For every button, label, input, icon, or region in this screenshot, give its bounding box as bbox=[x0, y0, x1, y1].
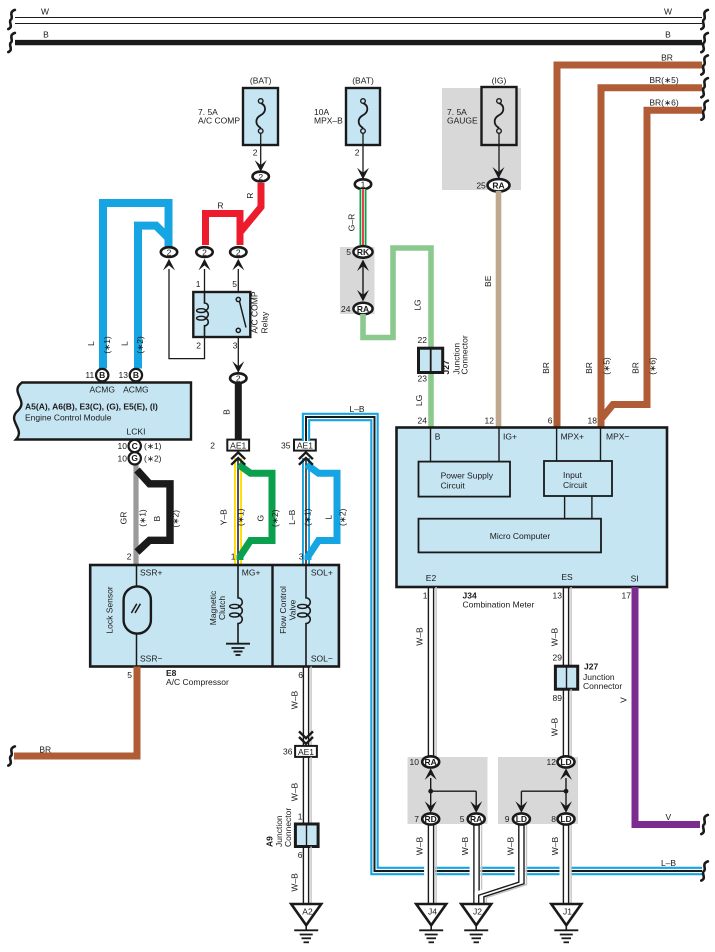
wire R red from F1 bbox=[240, 183, 261, 245]
svg-text:Connector: Connector bbox=[460, 335, 470, 374]
svg-text:ACMG: ACMG bbox=[123, 385, 149, 395]
svg-text:1: 1 bbox=[196, 279, 201, 289]
svg-text:Relay: Relay bbox=[260, 311, 270, 333]
svg-text:5: 5 bbox=[346, 247, 351, 257]
svg-text:(∗1): (∗1) bbox=[102, 336, 112, 354]
svg-text:5: 5 bbox=[127, 670, 132, 680]
svg-text:10: 10 bbox=[118, 453, 128, 463]
svg-text:B: B bbox=[43, 30, 49, 40]
svg-text:(BAT): (BAT) bbox=[352, 76, 374, 86]
svg-text:(∗2): (∗2) bbox=[338, 508, 348, 526]
svg-text:6: 6 bbox=[298, 850, 303, 860]
svg-text:29: 29 bbox=[553, 653, 563, 663]
svg-text:35: 35 bbox=[281, 440, 291, 450]
svg-text:MPX+: MPX+ bbox=[561, 432, 584, 442]
wire BR brown top bbox=[557, 65, 702, 428]
arrow up into oval relay pin5 bbox=[232, 259, 244, 271]
svg-text:10: 10 bbox=[118, 441, 128, 451]
wire BE beige bbox=[496, 191, 502, 428]
svg-text:22: 22 bbox=[418, 335, 428, 345]
connector oval 2 below relay bbox=[230, 373, 246, 383]
fuse F2 10A MPX-B bbox=[346, 88, 380, 145]
svg-text:Combination Meter: Combination Meter bbox=[463, 600, 535, 610]
meter internal tick MPX- bbox=[600, 428, 602, 462]
svg-text:W–B: W–B bbox=[506, 836, 516, 855]
gray background box RA/RD ground circuit bbox=[408, 757, 488, 824]
svg-text:2: 2 bbox=[167, 247, 172, 257]
wire W-B 9 LD to J2 ground diagonal bbox=[479, 825, 527, 904]
svg-text:23: 23 bbox=[418, 374, 428, 384]
double chevron up below 35 AE1 bbox=[299, 452, 313, 464]
wire BR brown bottom left bbox=[14, 667, 137, 757]
gray background box LD ground circuit bbox=[498, 757, 578, 824]
svg-text:C: C bbox=[132, 441, 138, 451]
micro computer box bbox=[419, 519, 602, 553]
svg-text:Power Supply: Power Supply bbox=[441, 471, 494, 481]
svg-text:11: 11 bbox=[85, 370, 94, 380]
svg-text:2: 2 bbox=[127, 552, 132, 562]
svg-text:(∗5): (∗5) bbox=[602, 357, 612, 375]
svg-text:(∗1): (∗1) bbox=[137, 509, 147, 527]
wire BR(*5) brown bbox=[601, 88, 702, 428]
svg-text:W: W bbox=[41, 7, 49, 17]
svg-text:J27: J27 bbox=[441, 360, 451, 374]
break squiggle B right bbox=[701, 33, 708, 52]
wire W-B 7 RD to J4 ground bbox=[428, 825, 436, 904]
svg-text:(BAT): (BAT) bbox=[250, 76, 272, 86]
svg-text:LG: LG bbox=[413, 299, 423, 310]
svg-text:10: 10 bbox=[410, 757, 420, 767]
svg-text:SI: SI bbox=[631, 574, 639, 584]
svg-text:Connector: Connector bbox=[583, 681, 622, 691]
arrow down into 7 RD bbox=[425, 801, 437, 813]
svg-text:Micro Computer: Micro Computer bbox=[490, 531, 551, 541]
arrow down into oval below relay bbox=[232, 361, 244, 373]
double chevron down above 36 AE1 bbox=[299, 731, 313, 743]
svg-text:AE1: AE1 bbox=[298, 747, 314, 757]
wire W-B meter E2 down bbox=[428, 587, 436, 756]
svg-text:A/C COMP: A/C COMP bbox=[250, 291, 260, 333]
svg-text:B: B bbox=[99, 370, 105, 380]
relay coil bbox=[205, 292, 209, 337]
svg-text:9: 9 bbox=[505, 814, 510, 824]
svg-text:GR: GR bbox=[119, 512, 129, 525]
svg-text:Circuit: Circuit bbox=[441, 481, 466, 491]
svg-text:2: 2 bbox=[210, 440, 215, 450]
svg-text:R: R bbox=[245, 193, 255, 199]
svg-text:E2: E2 bbox=[426, 573, 437, 583]
fuse F1 7.5A A/C COMP bbox=[243, 88, 278, 145]
svg-text:W–B: W–B bbox=[460, 836, 470, 855]
junction connector J27 left box bbox=[419, 348, 443, 372]
svg-text:(∗1): (∗1) bbox=[235, 508, 245, 526]
svg-text:Input: Input bbox=[563, 470, 583, 480]
relay A/C COMP box bbox=[193, 292, 250, 337]
connector oval RA below F3 bbox=[488, 179, 510, 191]
connector oval 2 relay pin5 bbox=[230, 247, 246, 257]
meter internal tick IG+ bbox=[498, 428, 500, 462]
svg-text:12: 12 bbox=[485, 416, 495, 426]
svg-text:89: 89 bbox=[553, 693, 563, 703]
junction connector J27 right box bbox=[555, 666, 577, 689]
arrow down into oval 2 bbox=[255, 160, 267, 172]
svg-text:BR(∗5): BR(∗5) bbox=[649, 75, 678, 85]
svg-text:LCKI: LCKI bbox=[127, 427, 146, 437]
svg-text:A/C Compressor: A/C Compressor bbox=[166, 677, 229, 687]
svg-text:2: 2 bbox=[236, 247, 241, 257]
svg-text:L–B: L–B bbox=[661, 858, 676, 868]
svg-text:BR: BR bbox=[631, 362, 641, 374]
arrow down into oval 1 bbox=[357, 168, 369, 180]
svg-text:24: 24 bbox=[418, 416, 428, 426]
svg-text:LD: LD bbox=[560, 814, 571, 824]
svg-text:18: 18 bbox=[588, 416, 598, 426]
relay switch bbox=[236, 297, 246, 332]
circuit lines gray box 1 bbox=[431, 778, 477, 807]
wire B black loop (*2) bbox=[137, 470, 170, 552]
wire G green loop (*2) bbox=[239, 465, 273, 561]
svg-text:A9: A9 bbox=[265, 836, 275, 847]
power supply circuit box bbox=[419, 462, 511, 497]
svg-text:A/C COMP: A/C COMP bbox=[198, 116, 240, 126]
svg-text:2: 2 bbox=[236, 374, 241, 384]
wire W-B compressor pin6 upper bbox=[303, 667, 311, 746]
compressor divider bbox=[271, 565, 273, 667]
connector oval 1 below F2 bbox=[355, 179, 371, 189]
break squiggle BR(*6) right bbox=[701, 101, 708, 120]
lock sensor slashes bbox=[131, 604, 136, 613]
svg-text:G: G bbox=[256, 515, 266, 522]
wire relay pin3 down bbox=[237, 337, 239, 373]
break squiggle BR(*5) right bbox=[701, 78, 708, 97]
svg-text:6: 6 bbox=[298, 670, 303, 680]
svg-text:1: 1 bbox=[231, 552, 236, 562]
svg-text:RA: RA bbox=[492, 181, 504, 191]
svg-text:24: 24 bbox=[341, 304, 351, 314]
connector oval 2 cyan bbox=[161, 247, 177, 257]
junction dot bbox=[564, 789, 569, 794]
svg-text:1: 1 bbox=[361, 180, 366, 190]
wire L-B long run bbox=[306, 417, 702, 871]
svg-text:L: L bbox=[119, 341, 129, 346]
wire W-B meter ES down bbox=[563, 587, 571, 666]
wires input circuit to micro computer bbox=[564, 496, 566, 519]
svg-text:J1: J1 bbox=[563, 907, 572, 917]
svg-text:5: 5 bbox=[460, 814, 465, 824]
svg-text:Lock Sensor: Lock Sensor bbox=[105, 586, 115, 633]
wire R red branch to relay pin1 bbox=[206, 214, 241, 246]
arrow down into 8 LD bbox=[560, 801, 572, 813]
svg-text:(∗6): (∗6) bbox=[648, 357, 658, 375]
compressor E8 box bbox=[90, 565, 339, 667]
svg-text:Valve: Valve bbox=[288, 599, 298, 620]
svg-text:(∗1): (∗1) bbox=[303, 508, 313, 526]
junction dot bbox=[428, 789, 433, 794]
svg-text:BE: BE bbox=[483, 275, 493, 287]
svg-text:5: 5 bbox=[232, 279, 237, 289]
svg-text:V: V bbox=[665, 812, 671, 822]
svg-text:(IG): (IG) bbox=[492, 76, 507, 86]
svg-text:BR: BR bbox=[39, 745, 51, 755]
break squiggle V right bbox=[701, 815, 708, 834]
svg-text:B: B bbox=[152, 516, 162, 522]
svg-text:B: B bbox=[665, 30, 671, 40]
svg-text:1: 1 bbox=[298, 812, 303, 822]
svg-text:W–B: W–B bbox=[415, 627, 425, 646]
fuse F3 7.5A GAUGE bbox=[482, 87, 517, 145]
svg-text:B: B bbox=[133, 370, 139, 380]
arrow down into 9 LD bbox=[515, 801, 527, 813]
svg-text:2: 2 bbox=[202, 247, 207, 257]
svg-text:SSR+: SSR+ bbox=[140, 568, 162, 578]
meter internal tick B bbox=[430, 428, 432, 462]
arrow up into cyan oval bbox=[163, 259, 175, 271]
wire BR(*6) brown bbox=[602, 110, 703, 418]
svg-text:B: B bbox=[435, 432, 441, 442]
svg-text:ES: ES bbox=[561, 572, 573, 582]
svg-text:B: B bbox=[221, 409, 231, 415]
svg-text:W–B: W–B bbox=[550, 717, 560, 736]
svg-text:LD: LD bbox=[516, 814, 527, 824]
svg-text:G: G bbox=[131, 453, 138, 463]
svg-text:AE1: AE1 bbox=[230, 441, 246, 451]
svg-text:3: 3 bbox=[299, 552, 304, 562]
svg-text:(∗2): (∗2) bbox=[144, 453, 162, 463]
svg-text:L: L bbox=[324, 515, 334, 520]
flow control valve coil bbox=[306, 565, 310, 667]
break squiggle BR left bbox=[8, 746, 15, 765]
svg-text:8: 8 bbox=[551, 814, 556, 824]
wire fuse F2 to connector bbox=[362, 133, 364, 179]
junction connector A9 box bbox=[295, 824, 318, 847]
wire W-B J27 to 12 LD bbox=[563, 689, 571, 756]
svg-text:MPX−: MPX− bbox=[606, 432, 629, 442]
svg-text:(∗2): (∗2) bbox=[270, 509, 280, 527]
svg-text:L–B: L–B bbox=[287, 509, 297, 524]
break squiggle L-B right bbox=[701, 861, 708, 880]
lock sensor capsule bbox=[124, 586, 151, 633]
svg-text:BR: BR bbox=[661, 53, 673, 63]
arrow up into oval relay pin1 bbox=[199, 259, 211, 271]
svg-text:Connector: Connector bbox=[283, 808, 293, 847]
arrow down into 5 RA bbox=[470, 801, 482, 813]
svg-text:36: 36 bbox=[283, 747, 293, 757]
wire B black to AE1 bbox=[235, 383, 242, 440]
svg-text:(∗2): (∗2) bbox=[135, 336, 145, 354]
wire W bus top bbox=[15, 18, 702, 24]
svg-text:J2: J2 bbox=[473, 907, 482, 917]
svg-text:LD: LD bbox=[560, 757, 571, 767]
svg-text:W–B: W–B bbox=[550, 627, 560, 646]
wire W-B AE1 to A9 bbox=[303, 757, 311, 824]
svg-text:RA: RA bbox=[425, 757, 437, 767]
ground J2 bbox=[461, 904, 491, 942]
svg-text:Circuit: Circuit bbox=[563, 480, 588, 490]
wire L cyan (*1) from bus bbox=[103, 203, 169, 369]
gray background box fuse GAUGE bbox=[442, 88, 521, 190]
svg-text:AE1: AE1 bbox=[297, 441, 313, 451]
svg-text:25: 25 bbox=[476, 180, 486, 190]
svg-text:1: 1 bbox=[423, 591, 428, 601]
arrow down into oval RA bbox=[493, 167, 505, 179]
gray background box RK/RA connector bbox=[340, 247, 375, 314]
svg-text:W–B: W–B bbox=[290, 690, 300, 709]
svg-text:W–B: W–B bbox=[290, 873, 300, 892]
svg-text:12: 12 bbox=[547, 757, 557, 767]
wire L cyan (*2) from bus bbox=[138, 226, 169, 369]
svg-text:MPX–B: MPX–B bbox=[314, 116, 343, 126]
wire Y-B yellow-black (*1) bbox=[234, 458, 242, 565]
double headed arrow RK to RA bbox=[357, 260, 369, 302]
svg-text:MG+: MG+ bbox=[242, 568, 261, 578]
svg-text:W–B: W–B bbox=[415, 836, 425, 855]
arrow up into 10 RA bbox=[425, 768, 437, 780]
svg-text:RD: RD bbox=[425, 814, 437, 824]
svg-text:13: 13 bbox=[119, 370, 129, 380]
wire G-R green-red from oval 1 bbox=[360, 189, 367, 245]
arrow up into 12 LD bbox=[560, 768, 572, 780]
wire relay pin1 bbox=[204, 269, 206, 292]
ground A2 bbox=[291, 904, 321, 942]
wire W-B 5 RA to J2 ground bbox=[474, 825, 482, 904]
wire GR gray bbox=[133, 452, 138, 565]
svg-text:BR: BR bbox=[584, 362, 594, 374]
svg-text:RK: RK bbox=[357, 247, 370, 257]
svg-text:2: 2 bbox=[253, 148, 258, 158]
svg-text:Engine Control Module: Engine Control Module bbox=[25, 413, 112, 423]
wire relay pin5 bbox=[237, 269, 239, 297]
magnetic clutch coil bbox=[238, 565, 242, 644]
wire LG light green bbox=[363, 248, 431, 428]
wire W-B A9 to A2 ground bbox=[303, 847, 311, 905]
svg-text:ACMG: ACMG bbox=[89, 385, 115, 395]
wire B bus thick black bbox=[15, 40, 702, 45]
svg-text:W–B: W–B bbox=[550, 836, 560, 855]
svg-text:RA: RA bbox=[357, 304, 369, 314]
svg-text:Clutch: Clutch bbox=[217, 596, 227, 620]
svg-text:Y–B: Y–B bbox=[218, 509, 228, 525]
svg-text:6: 6 bbox=[548, 416, 553, 426]
svg-text:SOL+: SOL+ bbox=[311, 568, 333, 578]
svg-text:J4: J4 bbox=[428, 907, 437, 917]
ground J1 bbox=[551, 904, 581, 942]
break squiggle B left bbox=[8, 33, 15, 52]
svg-text:2: 2 bbox=[258, 172, 263, 182]
svg-text:SOL−: SOL− bbox=[311, 654, 333, 664]
wire W-B 8 LD to J1 ground bbox=[563, 825, 571, 904]
svg-text:L: L bbox=[86, 341, 96, 346]
svg-text:7: 7 bbox=[414, 814, 419, 824]
wire relay pin2 loop to cyan oval bbox=[169, 269, 205, 359]
wire L cyan loop (*2) bbox=[307, 465, 338, 561]
svg-text:Flow Control: Flow Control bbox=[278, 586, 288, 634]
svg-text:13: 13 bbox=[553, 591, 563, 601]
connector oval 2 below F1 bbox=[253, 172, 269, 182]
svg-text:V: V bbox=[619, 697, 629, 703]
svg-text:2: 2 bbox=[196, 340, 201, 350]
svg-text:IG+: IG+ bbox=[503, 432, 517, 442]
svg-text:LG: LG bbox=[414, 395, 424, 406]
meter internal tick MPX+ bbox=[556, 428, 558, 462]
circuit lines gray box 2 bbox=[521, 778, 566, 807]
double chevron up below 2 AE1 bbox=[231, 452, 245, 464]
svg-text:A2: A2 bbox=[302, 907, 313, 917]
ECM Engine Control Module box bbox=[14, 383, 191, 440]
svg-text:G–R: G–R bbox=[346, 214, 356, 231]
ground J4 bbox=[416, 904, 446, 942]
svg-text:R: R bbox=[217, 201, 223, 211]
svg-text:SSR−: SSR− bbox=[140, 654, 162, 664]
svg-text:W–B: W–B bbox=[290, 782, 300, 801]
svg-text:RA: RA bbox=[470, 814, 482, 824]
combination meter J34 box bbox=[397, 428, 668, 588]
wire fuse F1 to connector bbox=[260, 133, 262, 171]
connector oval 2 relay pin1 bbox=[196, 247, 212, 257]
svg-text:3: 3 bbox=[233, 340, 238, 350]
break squiggle W left bbox=[8, 10, 15, 29]
svg-text:J27: J27 bbox=[584, 662, 598, 672]
break squiggle W right bbox=[701, 10, 708, 29]
svg-text:L–B: L–B bbox=[349, 404, 364, 414]
svg-text:A5(A), A6(B), E3(C), (G), E5(E: A5(A), A6(B), E3(C), (G), E5(E), (I) bbox=[25, 402, 158, 412]
wire L-B cyan-black (*1) bbox=[302, 458, 310, 565]
svg-text:(∗2): (∗2) bbox=[170, 510, 180, 528]
svg-text:W: W bbox=[664, 7, 672, 17]
svg-text:BR(∗6): BR(∗6) bbox=[649, 98, 678, 108]
input circuit box bbox=[544, 461, 612, 496]
svg-text:(∗1): (∗1) bbox=[144, 441, 162, 451]
svg-text:BR: BR bbox=[541, 362, 551, 374]
wire fuse F3 to connector 25 bbox=[498, 133, 500, 178]
svg-text:2: 2 bbox=[355, 148, 360, 158]
break squiggle BR right bbox=[701, 55, 708, 74]
svg-text:17: 17 bbox=[622, 591, 632, 601]
magnetic clutch ground bbox=[226, 644, 250, 655]
wire V violet bbox=[635, 587, 700, 825]
lock sensor wire bbox=[136, 565, 138, 667]
svg-text:GAUGE: GAUGE bbox=[447, 116, 478, 126]
